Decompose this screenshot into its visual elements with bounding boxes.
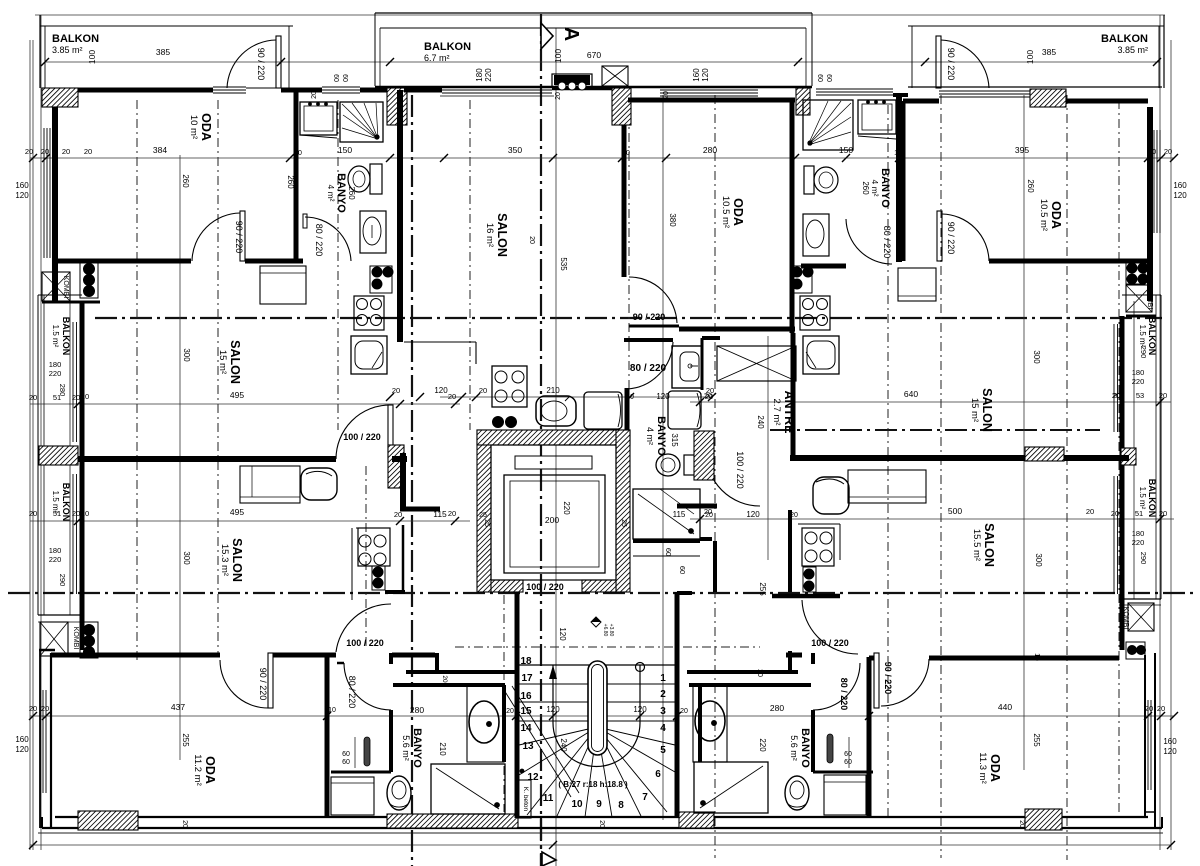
svg-text:210: 210 — [438, 742, 447, 756]
svg-text:495: 495 — [230, 390, 244, 400]
wall ODA11.3 left x869 — [867, 657, 872, 818]
boundary line left inner — [40, 15, 42, 850]
svg-text:90 / 220: 90 / 220 — [633, 312, 666, 322]
svg-text:5.6 m²: 5.6 m² — [401, 735, 411, 761]
dim row y158 ticks — [29, 154, 37, 162]
grid dashed vertical x888 — [887, 105, 889, 816]
svg-text:90 / 220: 90 / 220 — [234, 221, 244, 254]
svg-text:120: 120 — [15, 191, 29, 200]
boundary line right outer — [1170, 40, 1172, 850]
grid dashed vertical x137 — [136, 100, 138, 660]
wall top ODA-TR y101 — [903, 99, 939, 104]
svg-text:1.5 m²: 1.5 m² — [1138, 325, 1147, 348]
svg-text:240: 240 — [756, 415, 765, 429]
svg-text:53: 53 — [1136, 391, 1144, 400]
svg-text:BALKON: BALKON — [61, 317, 71, 356]
svg-text:120: 120 — [656, 392, 670, 401]
kombi closet right-top — [1126, 285, 1152, 312]
svg-text:255: 255 — [758, 582, 767, 596]
svg-text:20: 20 — [1018, 820, 1025, 828]
svg-text:160: 160 — [15, 735, 29, 744]
svg-text:160: 160 — [15, 181, 29, 190]
boundary line bottom2 — [30, 844, 1171, 846]
svg-text:60: 60 — [844, 759, 852, 766]
kombi closet left-bottom — [40, 622, 68, 656]
toilet BANYO-R — [804, 166, 814, 194]
svg-text:BANYO: BANYO — [799, 728, 811, 768]
wall ODA10/BANYO x296 — [294, 88, 299, 261]
door arc top-right balcony — [941, 40, 989, 88]
chain vertical x180 — [179, 155, 181, 760]
window top BANYO-R — [816, 88, 893, 90]
stair walk circle — [636, 663, 645, 672]
svg-text:13: 13 — [522, 741, 534, 752]
svg-text:20: 20 — [1157, 704, 1165, 713]
svg-text:290: 290 — [58, 574, 67, 587]
sink BANYO-BL — [469, 701, 499, 743]
svg-text:20: 20 — [394, 510, 402, 519]
chain vertical x768 — [767, 336, 769, 560]
counter kitchen-BR — [798, 523, 840, 525]
stove left-apt — [354, 296, 384, 330]
svg-text:20: 20 — [72, 393, 80, 402]
wall BANYO-C bottom — [633, 539, 700, 543]
window left wall lower — [42, 690, 44, 793]
towel radiator BANYO-BR — [827, 734, 833, 763]
svg-text:20: 20 — [81, 509, 89, 518]
svg-text:260: 260 — [1026, 179, 1035, 193]
svg-text:51: 51 — [1135, 509, 1143, 518]
door leaf top-right balcony — [936, 36, 941, 88]
svg-text:220: 220 — [562, 501, 571, 515]
radiator left-bottom — [80, 622, 98, 658]
chain vertical x663 — [662, 95, 664, 820]
svg-text:80 / 220: 80 / 220 — [839, 678, 849, 711]
elevator hatched wall top — [477, 430, 630, 445]
dim row y845 ticks — [29, 841, 37, 849]
svg-text:160: 160 — [692, 68, 701, 82]
svg-text:640: 640 — [904, 389, 918, 399]
counter kitchen-BL — [356, 527, 388, 529]
svg-text:115: 115 — [673, 510, 686, 519]
svg-text:3.85 m²: 3.85 m² — [1117, 45, 1148, 55]
svg-text:280: 280 — [410, 705, 424, 715]
door arc BANYO-L — [305, 217, 351, 261]
svg-text:255: 255 — [181, 733, 190, 747]
sink BANYO-L — [300, 102, 337, 135]
toilet BANYO-BR — [785, 776, 809, 810]
svg-text:100 / 220: 100 / 220 — [346, 638, 384, 648]
svg-text:180: 180 — [1132, 529, 1145, 538]
wall BANYO-R bottom y266 — [801, 264, 846, 269]
svg-text:17: 17 — [521, 673, 533, 684]
elevator hatched wall left — [477, 430, 491, 592]
sink BANYO-C — [672, 346, 702, 388]
pier hatched balcony-left divider — [39, 446, 78, 465]
svg-text:115: 115 — [433, 509, 447, 519]
svg-text:1.5 m²: 1.5 m² — [1138, 487, 1147, 510]
svg-text:4 m²: 4 m² — [326, 185, 336, 202]
svg-text:20: 20 — [528, 236, 535, 244]
grid dashed vertical x366 — [365, 466, 367, 650]
axis horizontal y593 — [8, 592, 1196, 594]
axis horizontal y430 — [770, 429, 1100, 431]
chain vertical x1024 — [1023, 95, 1025, 770]
svg-text:ODA: ODA — [203, 756, 217, 784]
desk mid-left — [240, 466, 300, 503]
stair newel slot — [588, 661, 607, 755]
elevator hatched wall right — [616, 430, 630, 592]
wall ODA-TR left x903 — [901, 101, 906, 261]
radiator right-top — [1126, 262, 1145, 284]
door leaf ODA11.2 — [268, 653, 273, 708]
svg-text:60: 60 — [341, 74, 348, 82]
pier hatched banyoC right — [694, 431, 714, 480]
svg-text:20: 20 — [598, 820, 605, 828]
svg-text:3.85 m²: 3.85 m² — [52, 45, 83, 55]
svg-text:SALON: SALON — [982, 523, 996, 567]
svg-text:20: 20 — [1145, 704, 1153, 713]
svg-text:220: 220 — [1132, 538, 1145, 547]
wall right x1150 upper — [1147, 107, 1153, 301]
washer BANYO-C — [668, 391, 701, 429]
balcony top-center slab edge — [375, 86, 812, 88]
radiator right-bottom — [1126, 642, 1145, 659]
sink kitchen-L — [536, 396, 576, 426]
window balcony-right upper — [1113, 324, 1115, 432]
svg-text:670: 670 — [587, 50, 601, 60]
wall hall y593 stubs — [677, 591, 692, 595]
grid dashed vertical x470 — [469, 100, 471, 430]
pier hatched x387 — [387, 88, 407, 125]
wall BANYO-BL left x391 — [389, 710, 393, 772]
pier hatched bottom x679 — [679, 812, 714, 828]
shaft box top-center — [602, 66, 628, 86]
svg-text:100 / 220: 100 / 220 — [811, 638, 849, 648]
dim chain y62 — [45, 61, 1160, 63]
desk mid-right — [848, 470, 926, 503]
svg-text:180: 180 — [49, 360, 62, 369]
svg-text:80 / 220: 80 / 220 — [882, 226, 892, 259]
svg-text:KOMBI: KOMBI — [1146, 287, 1153, 310]
svg-text:20: 20 — [705, 392, 713, 401]
pier hatched x1030 — [1030, 89, 1066, 107]
toilet BANYO-L — [370, 164, 382, 194]
svg-text:20: 20 — [756, 669, 763, 677]
svg-text:+6.80: +6.80 — [602, 624, 608, 637]
svg-text:BANYO: BANYO — [411, 728, 423, 768]
svg-text:120: 120 — [746, 510, 760, 519]
svg-text:20: 20 — [25, 147, 33, 156]
svg-text:20: 20 — [555, 92, 562, 100]
svg-text:384: 384 — [153, 145, 167, 155]
wall BANYO/SALON x400 — [397, 90, 403, 342]
balcony top-right outline — [1163, 15, 1165, 88]
pier hatched inter-right — [1025, 447, 1064, 461]
svg-text:A: A — [560, 27, 582, 41]
window top SALON16 — [442, 86, 552, 88]
svg-text:20: 20 — [311, 91, 318, 99]
svg-text:10.5 m²: 10.5 m² — [1038, 199, 1049, 231]
window left wall upper — [43, 128, 45, 258]
svg-text:210: 210 — [546, 386, 560, 395]
svg-text:20: 20 — [41, 147, 49, 156]
pier hatched x612 — [612, 88, 631, 125]
wall ODA11.3 top y658 — [929, 656, 1119, 661]
wall BANYO-BL top y685 — [393, 683, 505, 687]
svg-text:200: 200 — [545, 515, 559, 525]
door leaf ODA10.5 — [629, 325, 679, 328]
wall inter-apartment left y459 — [78, 456, 336, 462]
svg-text:18: 18 — [520, 656, 532, 667]
svg-text:80 / 220: 80 / 220 — [630, 363, 667, 374]
svg-text:4: 4 — [660, 723, 666, 734]
towel radiator BANYO-BL — [364, 737, 370, 766]
sink top BANYO-R — [858, 100, 896, 134]
boundary line right inner — [1159, 15, 1161, 850]
svg-text:90 / 220: 90 / 220 — [883, 662, 893, 695]
svg-text:220: 220 — [484, 68, 493, 82]
svg-text:60: 60 — [342, 751, 350, 758]
svg-text:385: 385 — [1042, 47, 1056, 57]
balcony right cap top — [1122, 294, 1161, 296]
door leaf inter-left — [388, 405, 393, 459]
svg-text:220: 220 — [1132, 377, 1145, 386]
svg-text:ODA: ODA — [988, 754, 1002, 782]
svg-text:60: 60 — [342, 759, 350, 766]
radiator block top-center — [552, 74, 592, 87]
svg-text:300: 300 — [1034, 553, 1043, 567]
pier hatched x796 — [796, 88, 810, 115]
svg-text:180: 180 — [1132, 368, 1145, 377]
door leaf BANYO-C — [624, 338, 673, 342]
wall right-bottom x1150 — [1144, 655, 1146, 817]
svg-text:90 / 220: 90 / 220 — [946, 48, 956, 81]
wall top right BANYO stub — [893, 93, 908, 97]
svg-text:160: 160 — [1173, 181, 1187, 190]
window balcony-left upper — [72, 322, 74, 442]
door leaf ODA-TR — [937, 211, 942, 261]
svg-text:BALKON: BALKON — [1101, 33, 1148, 45]
wall BANYO-BR x700 — [698, 685, 702, 762]
grid dashed vertical x1119 — [1118, 100, 1120, 812]
radiator left-apt — [370, 266, 392, 293]
wall top y90 seg2 — [281, 88, 322, 93]
svg-text:495: 495 — [230, 507, 244, 517]
chain vertical x556 — [555, 28, 557, 866]
wall top y90 seg4 — [404, 88, 442, 93]
shower BANYO-C — [633, 489, 700, 539]
svg-text:15 m²: 15 m² — [217, 350, 228, 374]
svg-text:10: 10 — [626, 394, 634, 401]
washbasin BANYO-L — [360, 211, 386, 253]
toilet BANYO-C — [684, 455, 696, 475]
svg-text:120: 120 — [1163, 747, 1177, 756]
svg-text:SALON: SALON — [230, 538, 244, 582]
dim chain y521 left — [30, 520, 470, 522]
wall inter-left y459 seg2 — [392, 456, 407, 462]
wall y772 br — [813, 771, 873, 774]
svg-text:4 m²: 4 m² — [645, 427, 655, 445]
svg-text:100: 100 — [1025, 50, 1035, 64]
wall corridor-right x790 — [788, 510, 792, 592]
wall x624 — [622, 125, 627, 277]
wall corridor-right x715 — [713, 541, 717, 592]
grid dashed vertical x941 — [940, 95, 942, 858]
window top ODA10.5 — [660, 89, 758, 91]
sill line top-left opening — [246, 87, 277, 89]
chair mid-left — [301, 468, 337, 500]
door arc BANYO-BL — [344, 663, 391, 710]
radiator kitchen-BL — [372, 566, 385, 590]
door arc top-left balcony — [227, 40, 276, 88]
svg-text:20: 20 — [29, 509, 37, 518]
svg-text:15.5 m²: 15.5 m² — [971, 529, 982, 561]
wall BANYO-BR right x813 — [811, 710, 815, 772]
door arc entry-right — [802, 600, 858, 654]
svg-text:BANYO: BANYO — [655, 416, 667, 456]
wall y261 seg2 — [245, 259, 303, 264]
svg-text:260: 260 — [861, 181, 870, 195]
door arc ODA11.3 — [881, 659, 929, 706]
svg-text:20: 20 — [81, 392, 89, 401]
wall bottom y818 — [55, 816, 1148, 818]
svg-text:255: 255 — [1032, 733, 1041, 747]
wall top y90 seg3 — [360, 88, 390, 93]
svg-text:8: 8 — [618, 800, 624, 811]
svg-text:60: 60 — [332, 74, 339, 82]
svg-text:20: 20 — [663, 91, 670, 99]
door arc BANYO-BR — [813, 663, 860, 710]
window balcony-right lower — [1113, 476, 1115, 594]
svg-text:280: 280 — [770, 703, 784, 713]
svg-text:+3.80: +3.80 — [608, 624, 614, 637]
wall top ODA10.5 y100 — [628, 98, 795, 103]
svg-text:SALON: SALON — [980, 388, 994, 432]
svg-text:280: 280 — [703, 145, 717, 155]
svg-text:14: 14 — [520, 723, 532, 734]
svg-text:20: 20 — [790, 512, 798, 519]
stair cut line — [504, 690, 571, 797]
stair winder lines — [519, 727, 675, 817]
elevator inner box — [491, 445, 616, 580]
pier hatched top-left corner — [42, 88, 78, 107]
axis horizontal y318 — [95, 317, 1162, 319]
svg-text:120: 120 — [434, 386, 448, 395]
svg-text:300: 300 — [182, 348, 191, 362]
wall ODA-TR bottom y261 — [989, 259, 1148, 264]
balcony left cap top — [38, 294, 82, 296]
boundary line bottom1 — [38, 832, 1163, 834]
shaft box right-apt — [717, 346, 796, 381]
door arc ODA10 — [192, 213, 240, 261]
pier hatched balcony-right divider — [1121, 448, 1136, 465]
svg-text:260: 260 — [181, 174, 190, 188]
boundary line top — [35, 14, 1165, 16]
svg-text:120: 120 — [1173, 191, 1187, 200]
svg-text:290: 290 — [1139, 552, 1148, 565]
door leaf ODA10 — [240, 211, 245, 261]
wall BANYO-C x627 — [625, 388, 630, 431]
level mark diamond — [591, 617, 601, 627]
elevator slot — [515, 456, 592, 469]
washer kitchen-L — [584, 392, 622, 429]
door leaf BANYO-BL — [337, 662, 344, 665]
kombi closet left-top — [42, 272, 70, 301]
wall BANYO-BR top y685 — [689, 683, 811, 687]
balcony right outer lines — [1160, 295, 1162, 599]
pier hatched bottom x387 — [387, 814, 518, 828]
svg-text:20: 20 — [181, 820, 188, 828]
axis vertical x541 — [540, 14, 542, 866]
svg-text:2.7 m²: 2.7 m² — [771, 399, 782, 426]
wall top y90 seg1 — [78, 88, 213, 93]
wall ODA11.2 right x327 — [325, 653, 330, 818]
sink right-apt — [803, 336, 839, 374]
wall corridor y509 — [400, 507, 440, 512]
door leaf BANYO-L — [303, 214, 307, 228]
svg-text:15: 15 — [520, 706, 532, 717]
svg-text:25: 25 — [620, 519, 627, 527]
svg-text:ODA: ODA — [199, 113, 213, 141]
wall right-apt x793 — [791, 333, 796, 458]
dim chain y402 right — [690, 401, 1171, 403]
svg-text:SALON: SALON — [495, 213, 509, 257]
wall corner bottom-right — [1145, 811, 1155, 813]
svg-text:2: 2 — [660, 689, 666, 700]
svg-text:BALKON: BALKON — [52, 33, 99, 45]
svg-text:385: 385 — [156, 47, 170, 57]
svg-text:KOMBI: KOMBI — [1122, 607, 1129, 630]
svg-text:20: 20 — [41, 704, 49, 713]
svg-text:120: 120 — [15, 745, 29, 754]
grid dashed horizontal y647 — [455, 646, 760, 648]
svg-text:15.3 m²: 15.3 m² — [219, 544, 230, 576]
wall ODA10 bottom y261 — [55, 259, 191, 264]
svg-text:10 m²: 10 m² — [188, 115, 199, 139]
svg-text:220: 220 — [49, 555, 62, 564]
balcony left outer lines — [37, 295, 39, 615]
door arc ODA11.2 — [220, 660, 268, 708]
svg-text:5.6 m²: 5.6 m² — [789, 735, 799, 761]
svg-text:100 / 220: 100 / 220 — [343, 432, 381, 442]
stairwell wall right x677 — [675, 592, 680, 818]
svg-text:300: 300 — [182, 551, 191, 565]
wall corridor x403 — [400, 453, 406, 511]
svg-text:( B:27 r:18 h:18.8 ): ( B:27 r:18 h:18.8 ) — [558, 780, 628, 789]
wall y772 bl — [331, 771, 391, 774]
wall right face x1126 — [1120, 316, 1125, 650]
svg-text:4 m²: 4 m² — [870, 180, 880, 197]
wall stub below banyoC — [700, 537, 712, 541]
svg-text:350: 350 — [508, 145, 522, 155]
svg-text:20: 20 — [441, 675, 448, 683]
stair steps upper — [519, 664, 675, 666]
svg-text:380: 380 — [668, 213, 677, 227]
svg-text:437: 437 — [171, 702, 185, 712]
wall BANYO-R right x899 — [896, 95, 902, 262]
grid dashed vertical x629 — [628, 95, 630, 590]
section marker A triangle — [541, 23, 553, 49]
svg-text:25: 25 — [479, 512, 487, 519]
shower BANYO-BR — [694, 762, 768, 813]
svg-text:20: 20 — [72, 509, 80, 518]
window balcony-left lower — [72, 474, 74, 594]
svg-text:20: 20 — [506, 708, 514, 715]
svg-text:440: 440 — [998, 702, 1012, 712]
svg-text:60: 60 — [844, 751, 852, 758]
balcony right cap bottom — [1119, 598, 1161, 600]
